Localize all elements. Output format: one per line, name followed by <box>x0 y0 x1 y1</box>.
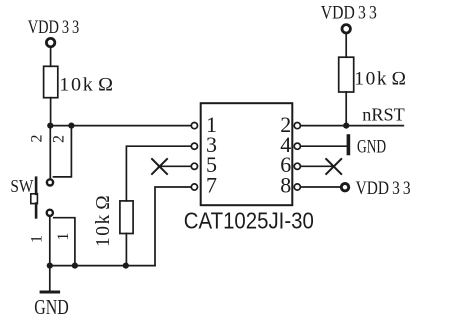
svg-text:GND: GND <box>34 295 69 319</box>
resistor R2 body (10k middle) <box>120 201 133 234</box>
svg-text:1 0 k Ω: 1 0 k Ω <box>354 69 406 90</box>
svg-text:7: 7 <box>206 172 217 197</box>
svg-text:8: 8 <box>280 172 291 197</box>
ground rail wire <box>50 265 155 267</box>
IC pin 3 circle <box>191 143 197 149</box>
IC pin 2 circle <box>294 123 300 129</box>
wire: R3 bottom to nRST net <box>345 92 347 126</box>
svg-text:nRST: nRST <box>362 104 405 124</box>
wire: VDD33 terminal to R3 top <box>345 34 347 58</box>
svg-text:1: 1 <box>29 235 46 243</box>
IC U1 CAT1025JI-30 body <box>201 103 293 205</box>
svg-text:VDD 3 3: VDD 3 3 <box>356 178 411 199</box>
ground symbol bar <box>41 291 59 294</box>
wire: switch lower contact to ground rail <box>49 217 51 266</box>
IC pin 1 circle <box>191 123 197 129</box>
switch SW lower contact <box>47 210 53 216</box>
power terminal VDD33 (top-right) <box>342 25 350 33</box>
svg-text:VDD 3 3: VDD 3 3 <box>28 17 79 38</box>
svg-text:1 0 k Ω: 1 0 k Ω <box>93 195 114 247</box>
power terminal VDD33 (pin 8) <box>341 184 348 191</box>
wire: switch lower contact right branch <box>54 218 75 266</box>
IC pin 6 circle <box>294 163 300 169</box>
svg-text:1 0 k Ω: 1 0 k Ω <box>59 75 113 96</box>
switch SW button body <box>31 194 38 204</box>
resistor R1 body (10k top-left) <box>44 66 58 97</box>
IC pin 5 circle <box>191 163 197 169</box>
wire: pin 5 stub <box>159 165 192 167</box>
power terminal VDD33 (top-left) <box>46 38 54 46</box>
IC pin 7 circle <box>191 184 197 190</box>
resistor R3 body (10k top-right) <box>339 57 354 92</box>
svg-text:SW: SW <box>10 176 33 196</box>
wire: pin 4 to GND bar <box>301 145 349 147</box>
svg-text:CAT1025JI-30: CAT1025JI-30 <box>184 208 314 234</box>
wire: pin 8 to VDD33 terminal <box>301 186 341 188</box>
svg-text:VDD 3 3: VDD 3 3 <box>321 3 377 24</box>
no-connect X on pin 6 <box>326 159 341 174</box>
wire: left drop to switch upper contact <box>49 126 51 179</box>
ground symbol bar (pin 4) <box>347 136 351 154</box>
switch SW actuator lower bar <box>35 204 38 218</box>
wire: node to IC pin 1 <box>50 125 191 127</box>
wire: IC pin 7 to ground rail <box>155 187 191 266</box>
wire: IC pin 3 to R2 top <box>126 146 191 201</box>
svg-text:2: 2 <box>29 135 46 143</box>
wire: rail to GND symbol <box>49 266 51 291</box>
svg-text:2: 2 <box>51 135 68 143</box>
IC pin 8 circle <box>294 184 300 190</box>
junction dot (rail middle) <box>72 263 78 269</box>
junction dot (rail at R2) <box>123 263 129 269</box>
junction dot (nRST node) <box>343 123 349 129</box>
wire: R2 bottom to rail <box>125 234 127 266</box>
no-connect X on pin 5 <box>152 159 167 174</box>
wire: right branch to switch upper contact <box>54 126 72 177</box>
junction dot (rail left) <box>47 263 53 269</box>
wire: nRST net (pin 2 to right) <box>301 125 404 127</box>
IC pin 4 circle <box>294 143 300 149</box>
svg-text:GND: GND <box>357 137 386 158</box>
wire: pin 6 stub <box>301 165 334 167</box>
junction dot (left node) <box>47 123 53 129</box>
switch SW actuator upper bar <box>35 178 38 194</box>
junction dot (right node) <box>68 123 74 129</box>
switch SW upper contact <box>47 179 53 185</box>
wire: VDD33 terminal to R1 top <box>50 48 52 67</box>
svg-text:1: 1 <box>55 233 72 241</box>
wire: R1 bottom to node <box>50 98 52 126</box>
